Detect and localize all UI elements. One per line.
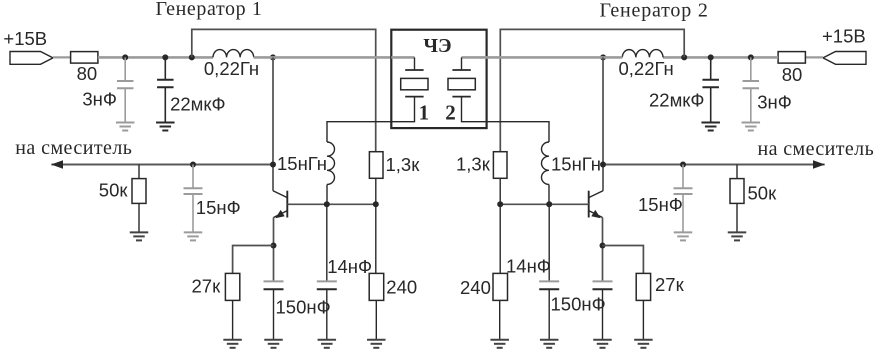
svg-text:50к: 50к (748, 183, 778, 204)
ground of 27к (left) (223, 340, 242, 348)
value label 50к (right) (748, 183, 778, 204)
value label 15нГн (left) (277, 153, 327, 174)
svg-text:0,22Гн: 0,22Гн (619, 58, 674, 79)
svg-text:на смеситель: на смеситель (15, 137, 132, 159)
ground of 15нФ (right) (674, 232, 693, 240)
pin label 1 (419, 101, 430, 125)
svg-text:2: 2 (445, 101, 456, 125)
wire base line (right) (500, 203, 589, 205)
wire to mixer (right) (603, 164, 825, 166)
resistor 80 (left) (71, 52, 98, 64)
power connector tag +15V (left) (10, 52, 53, 65)
value label 22мкФ (left) (170, 94, 225, 115)
transistor VT1 emitter lead (left) (274, 211, 288, 218)
wire +15V bus segment B (left) (254, 56, 392, 59)
wire emitter drop (right) (602, 218, 604, 282)
value label 1,3к (right) (456, 154, 491, 175)
svg-text:Генератор 2: Генератор 2 (600, 0, 709, 21)
junction bus/feedback (right) (681, 54, 687, 60)
value label 14нФ (right) (506, 256, 551, 277)
value label 0,22Гн (left) (204, 58, 259, 79)
svg-text:1: 1 (419, 101, 430, 125)
ground of 22мкФ (left) (156, 123, 175, 131)
svg-text:27к: 27к (192, 276, 222, 297)
resistor 50к (left) (132, 165, 146, 233)
transistor VT1 emitter arrow (left) (275, 210, 284, 218)
resistor 1,3к (right) (493, 152, 507, 205)
inductor 15нГн (left) (327, 97, 415, 205)
value label 1,3к (left) (386, 154, 421, 175)
junction bus/22uF (right) (708, 54, 714, 60)
resistor 50к (right) (730, 165, 744, 233)
transistor VT2 base bar (right) (588, 191, 590, 218)
label ЧЭ (423, 35, 451, 57)
value label 150нФ (left) (276, 297, 331, 318)
svg-text:3нФ: 3нФ (757, 92, 792, 113)
svg-text:15нФ: 15нФ (196, 197, 241, 218)
wire tag to R80 (left) (53, 56, 71, 58)
value label 14нФ (left) (327, 256, 372, 277)
svg-text:ЧЭ: ЧЭ (423, 35, 451, 57)
junction bus/collector (left) (270, 54, 276, 60)
value label 3нФ (right) (757, 92, 792, 113)
transistor VT2 emitter arrow (right) (591, 210, 600, 218)
svg-text:+15В: +15В (822, 25, 866, 46)
junction bus/3nF (right) (748, 54, 754, 60)
value label 27к (left) (192, 276, 222, 297)
svg-text:0,22Гн: 0,22Гн (204, 58, 259, 79)
crystal 1 top plate (405, 69, 423, 71)
feedback wire loop (right) (500, 29, 684, 151)
transistor VT2 emitter lead (right) (589, 211, 603, 218)
svg-text:80: 80 (782, 64, 803, 85)
value label 27к (right) (655, 274, 685, 295)
net label +15V (right) (822, 25, 866, 46)
pin label 2 (445, 101, 456, 125)
wire +15V bus segment B (right) (485, 56, 623, 59)
net label на смеситель (right) (758, 138, 875, 160)
ground of 14нФ (left) (318, 340, 337, 348)
wire tag to R80 (right) (805, 56, 823, 58)
net label +15V (left) (3, 28, 47, 49)
ground of 50к (left) (130, 232, 149, 240)
capacitor 3нФ (left) (117, 57, 134, 122)
value label 22мкФ (right) (649, 90, 704, 111)
wire collector riser (right) (602, 57, 604, 190)
junction emitter node (right) (600, 243, 606, 249)
wire emitter to 27k (left) (233, 246, 274, 274)
capacitor 22мкФ (left) (157, 57, 174, 122)
junction bus/3nF (left) (122, 54, 128, 60)
feedback wire loop (left) (192, 29, 376, 151)
value label 150нФ (right) (551, 294, 606, 315)
power connector tag +15V (right) (823, 52, 866, 65)
junction bus/feedback (left) (189, 54, 195, 60)
junction bus/collector (right) (600, 54, 606, 60)
ground of 50к (right) (728, 232, 747, 240)
capacitor 14нФ (right) (539, 204, 559, 339)
crystal 2 bottom plate (452, 96, 470, 98)
svg-text:14нФ: 14нФ (327, 256, 372, 277)
ground of 3нФ (right) (742, 123, 761, 131)
transistor VT1 base bar (left) (286, 191, 288, 218)
junction emitter node (left) (271, 243, 277, 249)
junction base/14nF (left) (324, 201, 330, 207)
value label 50к (left) (99, 179, 129, 200)
svg-text:22мкФ: 22мкФ (649, 90, 704, 111)
svg-text:1,3к: 1,3к (386, 154, 421, 175)
svg-text:27к: 27к (655, 274, 685, 295)
arrow to mixer (right) (813, 160, 825, 169)
svg-text:22мкФ: 22мкФ (170, 94, 225, 115)
svg-text:на смеситель: на смеситель (758, 138, 875, 160)
value label 15нФ (right) (638, 194, 683, 215)
crystal 1 bottom plate (405, 96, 423, 98)
ground of 3нФ (left) (116, 123, 135, 131)
capacitor 22мкФ (right) (702, 57, 719, 122)
value label 15нГн (right) (551, 153, 601, 174)
svg-text:150нФ: 150нФ (276, 297, 331, 318)
transistor VT2 collector lead (right) (589, 191, 603, 198)
svg-text:240: 240 (460, 277, 491, 298)
crystal 1 body (401, 78, 428, 89)
capacitor 3нФ (right) (743, 57, 760, 122)
resistor 27к (left) (225, 273, 239, 339)
sensor box ЧЭ (391, 30, 486, 128)
net label на смеситель (left) (15, 137, 132, 159)
value label 15нФ (left) (196, 197, 241, 218)
value label 80 (right) (782, 64, 803, 85)
junction mixer/collector (right) (600, 162, 606, 168)
junction mixer/collector (left) (270, 162, 276, 168)
resistor 27к (right) (636, 273, 650, 339)
inductor 0,22Гн (right) (622, 50, 663, 58)
svg-text:14нФ: 14нФ (506, 256, 551, 277)
svg-text:15нГн: 15нГн (277, 153, 327, 174)
ground of 150нФ (left) (264, 340, 283, 348)
inductor 0,22Гн (left) (213, 50, 254, 58)
crystal 2 body (448, 78, 475, 89)
svg-text:3нФ: 3нФ (82, 88, 117, 109)
junction bus/22uF (left) (162, 54, 168, 60)
junction mixer/15nF (right) (680, 162, 686, 168)
value label 3нФ (left) (82, 88, 117, 109)
value label 240 (right) (460, 277, 491, 298)
crystal 2 top plate (452, 69, 470, 71)
wire +15V bus segment A (right) (663, 56, 778, 59)
capacitor 15нФ (right) (674, 165, 693, 233)
wire to mixer (left) (51, 164, 273, 166)
wire emitter to 27k (right) (603, 246, 644, 274)
svg-text:240: 240 (386, 276, 417, 297)
junction base/14nF (right) (546, 201, 552, 207)
resistor 80 (right) (778, 52, 805, 64)
resistor 240 (right) (493, 204, 508, 339)
wire +15V bus segment A (left) (98, 56, 213, 59)
svg-text:15нГн: 15нГн (551, 153, 601, 174)
svg-text:15нФ: 15нФ (638, 194, 683, 215)
crystal 2 top lead (462, 57, 487, 70)
resistor 1,3к (left) (369, 152, 383, 205)
capacitor 14нФ (left) (317, 204, 337, 339)
junction base/1.3k/240 (left) (373, 201, 379, 207)
arrow to mixer (left) (51, 160, 63, 169)
ground of 150нФ (right) (593, 340, 612, 348)
wire base line (left) (287, 203, 376, 205)
inductor 15нГн (right) (462, 97, 550, 205)
capacitor 150нФ (right) (593, 281, 613, 339)
junction mixer/15nF (left) (190, 162, 196, 168)
svg-text:80: 80 (77, 63, 98, 84)
svg-text:50к: 50к (99, 179, 129, 200)
ground of 15нФ (left) (184, 232, 203, 240)
svg-text:+15В: +15В (3, 28, 47, 49)
transistor VT1 collector lead (left) (273, 191, 287, 198)
wire collector riser (left) (272, 57, 274, 190)
crystal 1 top lead (391, 57, 414, 70)
svg-text:1,3к: 1,3к (456, 154, 491, 175)
ground of 240 (right) (490, 340, 509, 348)
title Генератор 1 (156, 0, 263, 20)
ground of 22мкФ (right) (701, 123, 720, 131)
wire emitter drop (left) (273, 218, 275, 282)
ground of 27к (right) (634, 340, 653, 348)
svg-text:150нФ: 150нФ (551, 294, 606, 315)
ground of 240 (left) (367, 340, 386, 348)
value label 0,22Гн (right) (619, 58, 674, 79)
capacitor 150нФ (left) (264, 281, 284, 339)
title Генератор 2 (600, 0, 709, 21)
svg-text:Генератор 1: Генератор 1 (156, 0, 263, 20)
value label 240 (left) (386, 276, 417, 297)
resistor 240 (left) (369, 204, 384, 339)
ground of 14нФ (right) (540, 340, 559, 348)
capacitor 15нФ (left) (184, 165, 203, 233)
junction base/1.3k/240 (right) (497, 201, 503, 207)
value label 80 (left) (77, 63, 98, 84)
